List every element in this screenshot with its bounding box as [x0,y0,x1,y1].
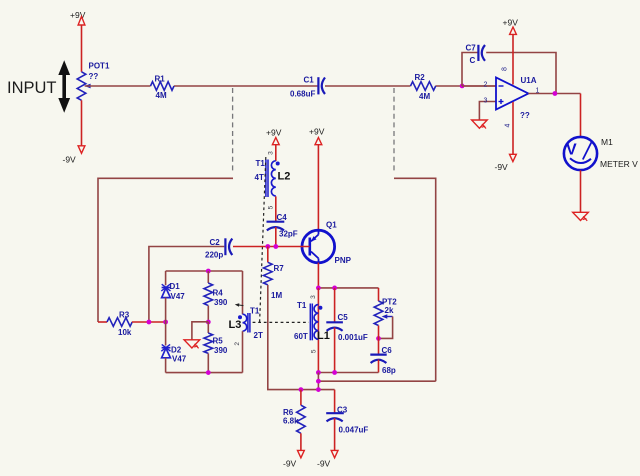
resistor R5 [204,322,228,373]
svg-text:PNP: PNP [335,256,352,265]
svg-text:390: 390 [214,346,228,355]
wire C3 top [334,390,336,414]
svg-text:0.047uF: 0.047uF [339,426,369,435]
coupling dashed L2-L3 [260,157,266,322]
wire pot top [81,25,83,72]
power +9V symbol (Q1) [309,127,325,145]
node base R7 [265,244,270,249]
svg-text:3: 3 [267,151,274,155]
meter M1 [564,137,638,170]
wire output to meter [580,94,582,138]
capacitor C7 [466,44,486,66]
svg-text:0.001uF: 0.001uF [338,333,368,342]
wire L2 to C4 [275,196,277,221]
svg-text:C5: C5 [338,313,349,322]
ground (op-amp pin 3) [472,120,488,129]
svg-text:C6: C6 [382,346,393,355]
svg-text:6.8k: 6.8k [283,417,299,426]
wire L1 bottom to lower rails [317,373,319,390]
svg-text:U1A: U1A [521,76,537,85]
svg-text:L1: L1 [317,330,330,342]
svg-text:-9V: -9V [495,162,509,172]
svg-text:-9V: -9V [317,459,331,469]
resistor R2 [411,73,436,101]
wire C4 to base node [275,227,277,247]
svg-text:V: V [566,142,577,159]
svg-text:R5: R5 [213,337,224,346]
svg-text:R7: R7 [274,264,285,273]
resistor R4 [204,271,228,322]
node output [553,91,558,96]
svg-text:D2: D2 [171,346,182,355]
power -9V symbol (op-amp) [495,154,517,172]
svg-text:2T: 2T [254,331,263,340]
wire Q1 emitter to +9V [317,145,319,231]
wire C5 vertical top [334,288,336,322]
zener D2 [161,344,186,363]
power -9V symbol (R6) [283,450,304,468]
power +9V symbol (T1 L2) [266,128,282,145]
wire pin 3 to ground [479,102,496,120]
svg-text:-9V: -9V [283,459,297,469]
transformer T1 winding L3 [229,307,263,341]
svg-text:3: 3 [484,98,488,105]
svg-text:3: 3 [310,295,317,299]
svg-text:??: ?? [89,72,99,81]
wire shield left [98,178,233,322]
wire diode box top rail [166,270,243,272]
wire pot bottom [81,100,83,146]
wire op-amp V+ pin 8 [512,34,514,84]
capacitor C3 [326,406,368,435]
svg-text:T1: T1 [250,307,260,316]
node tank bottom L1 [316,370,321,375]
wire L3 top [242,271,244,314]
svg-text:D1: D1 [170,282,181,291]
ground (meter) [573,212,589,221]
svg-text:1M: 1M [271,291,282,300]
svg-text:2k: 2k [385,306,394,315]
svg-text:R4: R4 [213,289,224,298]
wire op-amp output [528,93,580,95]
wire D1 to D2 [165,298,167,346]
node base C4 [273,244,278,249]
node R6 [299,387,304,392]
node opamp input [460,84,465,89]
capacitor C4 [267,213,298,239]
wire ground stub R4/R5 [192,322,208,340]
zener D1 [161,282,185,301]
shield dashed line right [393,88,395,174]
wire PT2 to C6 [378,326,380,355]
svg-text:390: 390 [214,298,228,307]
svg-text:0.68uF: 0.68uF [290,90,315,99]
wire C6 bottom [378,360,380,373]
svg-text:C1: C1 [304,76,315,85]
power -9V symbol (pot) [63,146,85,165]
svg-text:R3: R3 [119,311,130,320]
shield dashed line left [232,88,234,174]
svg-text:10k: 10k [118,328,132,337]
op-amp U1A [484,76,540,120]
svg-text:Q1: Q1 [326,221,337,230]
svg-text:68p: 68p [382,366,396,375]
INPUT label and arrow [7,60,70,112]
wire C2 left [149,247,224,323]
resistor R6 [283,390,305,451]
wire diode box bottom rail [166,372,243,374]
node R3/C2 [147,320,152,325]
svg-text:L2: L2 [278,171,291,183]
wire L3 bottom [242,331,244,372]
wire collector row [318,287,378,289]
wire C3 bottom [334,418,336,450]
svg-text:C2: C2 [210,238,221,247]
node row3 [316,387,321,392]
svg-text:+9V: +9V [309,127,325,137]
svg-text:4M: 4M [156,91,167,100]
node PT2 bottom [376,336,381,341]
svg-text:220p: 220p [205,251,223,260]
node R4/R5/ground [206,320,211,325]
svg-text:METER V: METER V [600,159,638,169]
wire D2 bottom [165,358,167,373]
svg-text:T1: T1 [256,159,266,168]
svg-text:T1: T1 [297,301,307,310]
svg-text:R1: R1 [155,75,166,84]
wire PT2 wiper loop [379,317,393,339]
node row2 [316,379,321,384]
svg-text:4: 4 [504,123,511,127]
potentiometer POT1 [77,62,110,101]
wire base row [233,246,310,248]
svg-text:R2: R2 [415,73,426,82]
svg-text:5: 5 [267,205,274,209]
svg-text:+9V: +9V [266,128,282,138]
wire main horizontal input [85,85,496,87]
wire shield right [394,178,436,381]
svg-text:POT1: POT1 [89,62,110,71]
svg-text:INPUT: INPUT [7,79,57,97]
wire feedback C7 loop [462,53,556,94]
power +9V symbol (op-amp) [503,18,519,35]
svg-text:M1: M1 [601,137,613,147]
capacitor C5 [326,313,368,342]
wire meter to ground [580,170,582,212]
svg-text:C: C [470,56,476,65]
svg-text:4M: 4M [419,92,430,101]
svg-text:4T: 4T [255,173,264,182]
svg-text:C4: C4 [277,213,288,222]
svg-text:32pF: 32pF [279,230,298,239]
wire L2 top [275,145,277,161]
node top rail R4 [206,269,211,274]
wire tank bottom row [318,372,378,374]
power +9V symbol (pot) [70,10,86,25]
node collector [316,286,321,291]
svg-text:5: 5 [311,349,318,353]
resistor R7 [263,247,284,301]
capacitor C6 [370,346,396,375]
resistor PT2 [374,298,397,326]
svg-text:+9V: +9V [70,10,86,20]
svg-text:2: 2 [484,82,488,89]
wire pin 2 [462,85,496,87]
svg-text:??: ?? [520,111,530,120]
svg-text:8: 8 [501,67,508,71]
transformer T1 winding L2 [255,159,291,197]
transistor Q1 [302,221,352,266]
svg-text:2: 2 [234,342,241,346]
node bottom rail R5 [206,370,211,375]
svg-text:C7: C7 [466,44,477,53]
capacitor C1 [290,76,325,99]
wire L1 vertical [317,288,319,373]
capacitor C2 [205,238,232,260]
svg-text:C3: C3 [337,406,348,415]
wire op-amp V- pin 4 [512,102,514,155]
svg-text:-9V: -9V [63,155,77,165]
svg-text:+9V: +9V [503,18,519,28]
coupling dashed L3-L1 [253,321,309,323]
node tank bottom C5 [332,370,337,375]
wire C5 vertical bottom [334,328,336,373]
wire D1 top [165,271,167,285]
pin 1 arrow (L3) [235,303,244,307]
node C5 top [332,286,337,291]
transformer T1 winding L1 [294,301,330,342]
wire R7 bottom [268,285,335,390]
svg-text:60T: 60T [294,332,308,341]
svg-text:V47: V47 [171,292,186,301]
ground (R4/R5 divider) [184,340,200,349]
resistor R3 [98,311,166,338]
resistor R1 [151,75,174,101]
svg-text:L3: L3 [229,319,242,331]
node D1/D2 [163,320,168,325]
wire bottom net to shield [318,380,435,382]
power -9V symbol (C3) [317,450,338,468]
svg-text:V47: V47 [172,355,187,364]
wire Q1 collector [317,263,319,288]
